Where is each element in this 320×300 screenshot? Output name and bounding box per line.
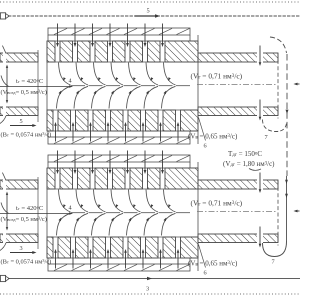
lower recuperator: tube bank edge lines [47,168,198,258]
lower recuperator: inlet pipe lower wall [0,233,38,250]
svg-text:(Vвозд= 0,5 нм3/с): (Vвозд= 0,5 нм3/с) [1,215,47,223]
lower recuperator: flow chevron curves [57,190,191,236]
lower recuperator: outlet pipe centreline [197,211,277,213]
svg-text:5: 5 [20,118,23,125]
upper recuperator: flow chevron curves [57,63,191,109]
upper recuperator: manifold side walls [48,35,190,137]
lower recuperator: lower tube bank hatched blocks [47,237,198,258]
bottom-left connector (line 3 source) [0,275,5,281]
lower recuperator: outlet pipe lower wall [198,233,278,243]
lower recuperator: flue gas arrows crossing outlet pipe walls [259,173,262,248]
svg-text:tг = 420оС: tг = 420оС [16,78,44,86]
lower recuperator: upper manifold feed arrows [56,151,164,175]
upper unit exit duct dashed bend [263,120,287,132]
svg-text:7: 7 [265,134,268,141]
lower recuperator: feed branch arrow, position 3 [10,245,37,254]
flue duct solid drop into lower unit [285,176,288,242]
upper recuperator: inlet vertical distribution arrows [1,65,9,104]
svg-text:5: 5 [147,8,150,15]
svg-text:(Вт = 0,0574 нм3/с): (Вт = 0,0574 нм3/с) [1,131,52,139]
lower recuperator: inlet vertical distribution arrows [1,192,9,231]
lower recuperator: lower manifold cover plate [48,264,190,271]
dotted page border top [0,1,300,3]
lower recuperator: outlet pipe upper wall [198,179,278,189]
gas line 5 solid arrow segment [135,15,156,17]
lower unit exit duct bend [263,242,287,257]
dotted page border bottom [0,293,300,295]
upper recuperator: inward arrow at image right edge [294,83,300,86]
upper recuperator: flue gas arrows crossing outlet pipe walls [259,46,262,121]
upper recuperator: inlet axial flow arrow [0,85,73,88]
upper recuperator: lower tube bank hatched blocks [47,110,198,131]
lower recuperator: label 6 with leader [199,245,207,277]
top-left connector (line 5 source) [0,13,5,19]
lower recuperator: inlet pipe upper wall [0,173,38,190]
gas line 3 (solid horizontal bottom) [8,278,300,280]
lower recuperator: manifold side walls [48,162,190,264]
upper recuperator: upper manifold feed arrows [56,24,164,48]
svg-text:3: 3 [146,286,149,293]
svg-text:(Вт = 0,0574 нм3/с): (Вт = 0,0574 нм3/с) [1,258,52,266]
lower recuperator: outlet pipe open end (dashed) [277,181,279,246]
upper recuperator: inlet pipe upper wall [0,46,38,63]
svg-text:6: 6 [204,143,207,150]
flue duct vertical dashed axis [286,54,288,176]
upper recuperator: lower manifold cover plate [48,137,190,144]
svg-text:tг = 420оС: tг = 420оС [16,205,44,213]
upper recuperator: inlet pipe lower wall [0,106,38,123]
flue duct dash-dot arc top right [270,37,287,53]
lower recuperator: inlet axial flow arrow [0,212,73,215]
upper recuperator: lower manifold feed arrows [54,122,179,142]
upper recuperator: upper manifold cover plate [48,28,190,35]
svg-text:7: 7 [272,259,275,266]
upper recuperator: feed branch arrow, position 5 [10,118,37,127]
upper recuperator: label 6 with leader [199,118,207,150]
lower recuperator: upper tube bank hatched blocks [47,168,198,189]
upper recuperator: outlet pipe open end (dashed) [277,54,279,119]
svg-text:3: 3 [20,245,23,252]
upper recuperator: front plate vertical lines [38,35,198,144]
leader curl under flue labels [249,169,261,171]
gas line 5 (dashed horizontal) [8,15,300,17]
svg-text:6: 6 [204,270,207,277]
upper recuperator: upper tube bank hatched blocks [47,41,198,62]
flue duct axis arrowhead [286,110,289,114]
svg-text:(Vвозд= 0,5 нм3/с): (Vвозд= 0,5 нм3/с) [1,88,47,96]
lower recuperator: front plate vertical lines [38,162,198,271]
upper recuperator: tube bank edge lines [47,41,198,131]
upper recuperator: outlet pipe lower wall [198,106,278,116]
lower recuperator: lower manifold feed arrows [54,249,179,269]
lower recuperator: upper manifold cover plate [48,155,190,162]
upper recuperator: outlet pipe upper wall [198,52,278,62]
lower recuperator: inward arrow at image right edge [294,210,300,213]
upper recuperator: outlet pipe centreline [197,84,277,86]
